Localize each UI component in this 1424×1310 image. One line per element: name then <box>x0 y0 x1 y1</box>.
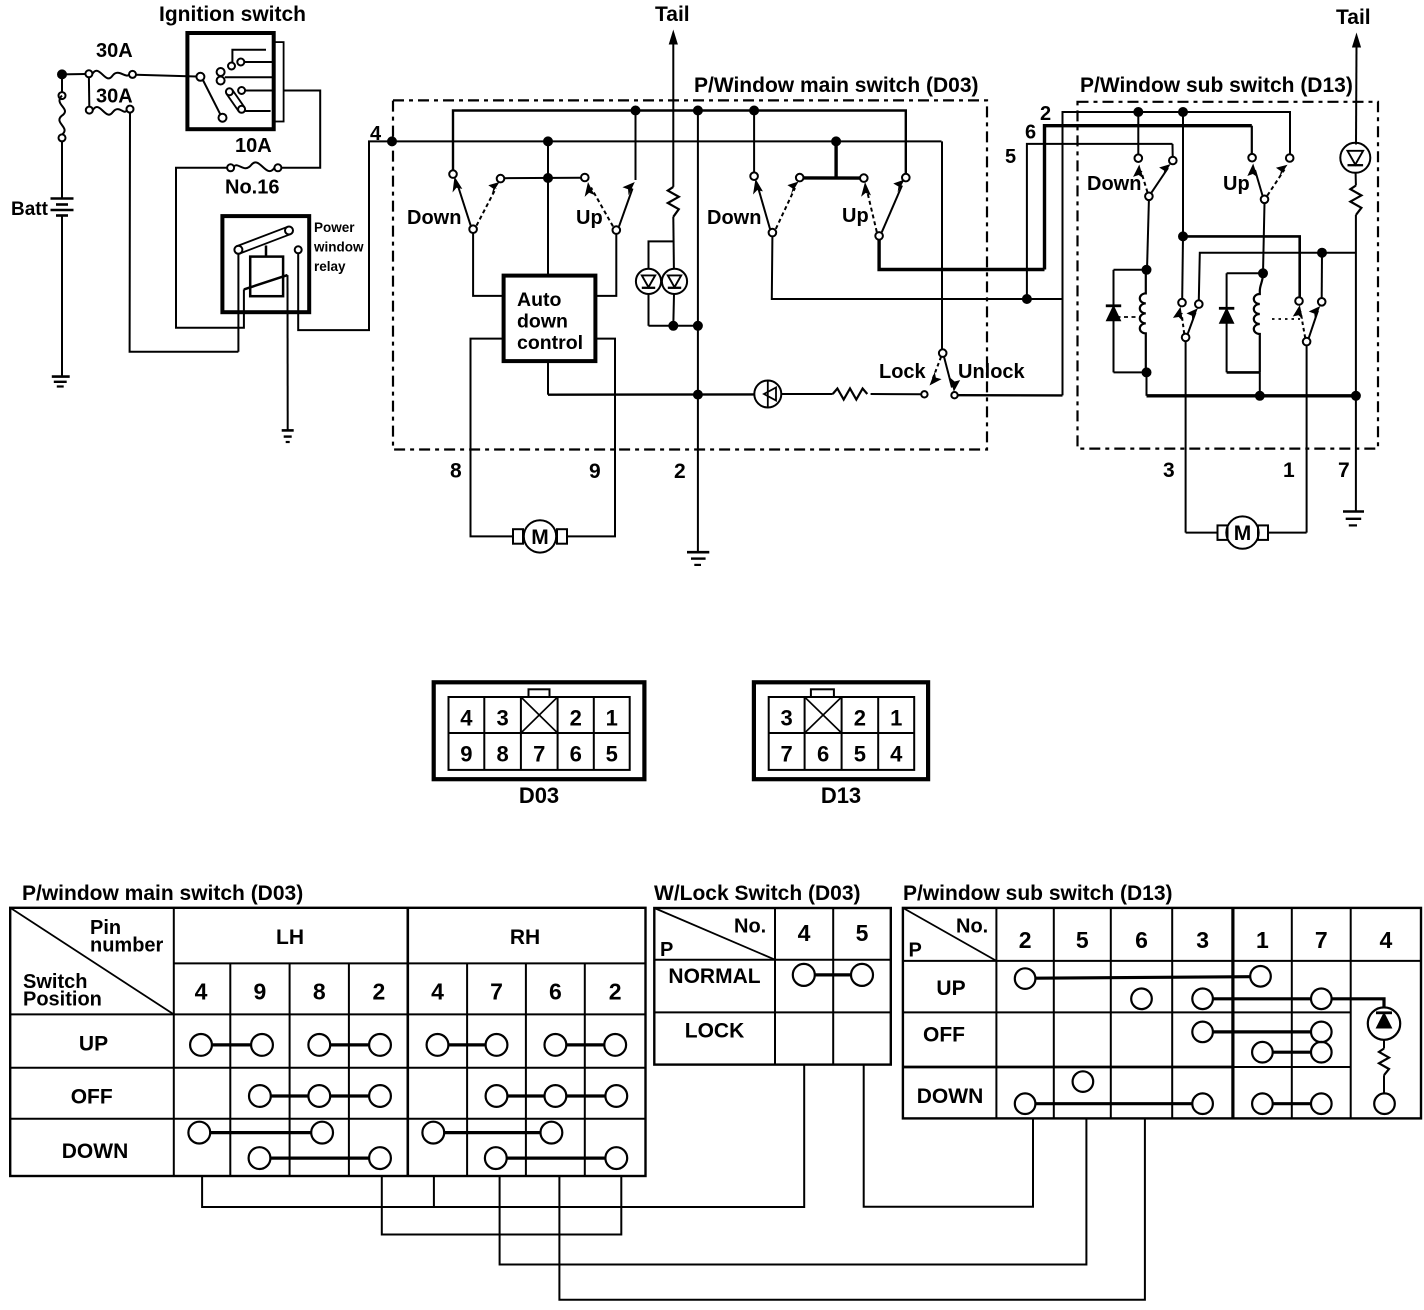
connector D13 <box>754 682 928 779</box>
svg-text:3: 3 <box>1196 927 1209 953</box>
wire pin4 bus <box>393 140 942 142</box>
svg-text:1: 1 <box>606 706 618 731</box>
svg-text:1: 1 <box>1283 459 1295 482</box>
wire net2 <box>1063 112 1291 395</box>
svg-text:4: 4 <box>1380 927 1393 953</box>
wire net2 to sub down left contact <box>1137 112 1139 154</box>
svg-text:9: 9 <box>460 742 472 767</box>
svg-text:2: 2 <box>1019 927 1032 953</box>
lamp illumination <box>754 381 781 408</box>
wire led pair top bracket <box>649 241 674 269</box>
node LH bracket <box>544 174 552 182</box>
wire unlock to net2 <box>958 394 1063 397</box>
arrow tail main <box>669 30 678 45</box>
switch sub down <box>1133 154 1177 200</box>
label power window relay <box>313 220 364 274</box>
ground relay <box>282 430 294 442</box>
svg-text:2: 2 <box>570 706 582 731</box>
svg-text:Lock: Lock <box>879 361 927 383</box>
diode D relay1 <box>1106 270 1121 373</box>
svg-text:1: 1 <box>890 706 902 731</box>
ignition switch contacts <box>196 50 273 122</box>
svg-text:number: number <box>90 935 164 957</box>
node top bus c <box>750 107 758 115</box>
svg-text:6: 6 <box>817 742 829 767</box>
contact sub col4 down <box>1374 1093 1395 1114</box>
wire fuse2 to relay contact <box>130 113 239 352</box>
wire resistor to led pair <box>672 217 675 269</box>
contacts NORMAL 4-5 <box>793 964 873 986</box>
svg-text:6: 6 <box>1025 122 1036 144</box>
connector D03 <box>434 682 645 779</box>
svg-text:Down: Down <box>1087 173 1141 195</box>
wire RH bracket <box>804 141 861 178</box>
svg-text:D03: D03 <box>519 783 559 808</box>
P/Window sub switch D13 dashed box <box>1078 102 1379 449</box>
switch RH up <box>860 174 910 240</box>
svg-text:5: 5 <box>856 920 869 946</box>
svg-text:7: 7 <box>1338 459 1350 482</box>
motor RH M <box>1186 516 1307 548</box>
relay1 bottom bracket <box>1114 371 1147 373</box>
table wlock header <box>660 916 869 962</box>
svg-text:OFF: OFF <box>923 1024 965 1047</box>
wire relay1 right contact to tail line <box>1199 253 1356 301</box>
switch sub up <box>1247 154 1293 203</box>
contacts sub UP 3-7-led <box>1192 989 1384 1010</box>
wire table link pin4 D03 <box>202 1065 804 1207</box>
wire led pair bottom bracket <box>649 294 698 326</box>
contacts sub OFF 3-7 <box>1192 1022 1331 1043</box>
svg-text:5: 5 <box>854 742 866 767</box>
svg-text:10A: 10A <box>235 135 272 157</box>
svg-text:LOCK: LOCK <box>685 1020 745 1043</box>
svg-text:window: window <box>313 240 364 255</box>
contacts DOWN LH 9-2 <box>249 1147 391 1169</box>
node net2 b <box>1179 108 1187 116</box>
wire top bus <box>453 111 906 174</box>
switch RH down <box>750 111 803 237</box>
wire table link pin2 D03 <box>382 1176 622 1235</box>
svg-text:8: 8 <box>496 742 508 767</box>
svg-text:2: 2 <box>854 706 866 731</box>
wire pin 1 <box>1306 345 1308 532</box>
svg-text:OFF: OFF <box>71 1086 113 1109</box>
svg-text:5: 5 <box>1005 146 1016 168</box>
battery Batt <box>11 199 74 221</box>
svg-text:LH: LH <box>276 926 304 949</box>
wire pin 8 <box>471 339 514 537</box>
svg-text:P/window main switch (D03): P/window main switch (D03) <box>22 882 303 905</box>
relay2 top bracket <box>1227 272 1263 274</box>
svg-text:down: down <box>517 311 568 333</box>
wire net6 to sub up left contact <box>1251 126 1253 154</box>
node led bracket b <box>694 322 702 330</box>
wire relay blade to ground <box>287 275 289 430</box>
wire LH down common to auto box <box>473 233 504 296</box>
fuse 10A No.16 <box>225 135 281 199</box>
wire pin 2 vertical <box>697 111 699 553</box>
svg-text:6: 6 <box>570 742 582 767</box>
wire link to relay2 right contact <box>1321 253 1323 298</box>
node net5 junction <box>1023 295 1031 303</box>
svg-text:control: control <box>517 332 583 354</box>
wire led to resistor sub <box>1355 173 1357 186</box>
ground tail sub <box>1343 512 1364 526</box>
linkage relay2 <box>1272 318 1300 320</box>
wire auto down to lamp line <box>547 361 549 395</box>
table sub switch grid <box>903 908 1421 1119</box>
resistor tail sub <box>1350 186 1361 215</box>
node pin4 bus right <box>832 137 840 145</box>
svg-text:P/Window main switch (D03): P/Window main switch (D03) <box>694 74 979 97</box>
svg-text:8: 8 <box>450 460 462 483</box>
svg-text:No.16: No.16 <box>225 177 279 199</box>
contacts sub DOWN 1-7 <box>1252 1093 1332 1114</box>
node battery junction <box>58 70 66 78</box>
svg-text:relay: relay <box>314 259 346 274</box>
svg-text:Ignition switch: Ignition switch <box>159 3 306 26</box>
wire auto-down top feed <box>547 141 549 275</box>
node led bracket a <box>669 322 677 330</box>
wire resistor to down contact <box>1383 1075 1385 1093</box>
wire resistor to lock contact <box>871 393 922 395</box>
contacts UP RH 6-2 <box>545 1034 627 1056</box>
svg-text:5: 5 <box>1076 927 1089 953</box>
svg-text:7: 7 <box>533 742 545 767</box>
wire relay2 to bottom bus <box>1259 372 1261 395</box>
svg-text:Batt: Batt <box>11 199 49 220</box>
contacts DOWN RH 7-2 <box>485 1147 627 1169</box>
svg-text:P/window sub switch (D13): P/window sub switch (D13) <box>903 882 1173 905</box>
wire sub down common to relay1 <box>1147 200 1149 270</box>
wire fuse1 to ignition switch <box>136 75 196 77</box>
wire pin 9 <box>567 339 615 537</box>
wire led to resistor table <box>1383 1040 1385 1049</box>
svg-text:1: 1 <box>1256 927 1269 953</box>
fuse 30A no2 <box>86 86 134 115</box>
svg-text:9: 9 <box>254 979 267 1005</box>
svg-text:2: 2 <box>1040 103 1051 125</box>
auto down control box <box>504 276 596 362</box>
table main pin number row <box>195 979 622 1005</box>
svg-text:3: 3 <box>496 706 508 731</box>
wire net5 into sub box <box>1027 144 1173 299</box>
svg-text:No.: No. <box>734 916 766 938</box>
relay2 bottom bracket <box>1227 371 1260 374</box>
fuse 30A no1 <box>85 40 136 78</box>
wire table link RH6 to sub6 <box>559 1118 1145 1299</box>
node tail link <box>1318 249 1326 257</box>
svg-text:2: 2 <box>373 979 386 1005</box>
svg-text:Down: Down <box>407 207 461 229</box>
contacts OFF RH 7-6-2 <box>486 1085 628 1107</box>
wire fuse 10A to relay coil <box>176 168 244 328</box>
svg-text:Unlock: Unlock <box>958 361 1026 383</box>
wire junction to fuse 30A no1 <box>62 73 85 75</box>
relay armature <box>234 227 293 257</box>
wire tail main down <box>672 42 674 187</box>
contacts UP LH 4-9 <box>190 1034 273 1056</box>
wire relay1 to bottom bus <box>1146 372 1148 395</box>
wire tail sub to ground <box>1355 215 1357 512</box>
arrow tail sub <box>1352 33 1361 48</box>
led main left <box>636 269 661 294</box>
svg-text:UP: UP <box>79 1033 108 1056</box>
node relay2 top <box>1259 269 1267 277</box>
svg-text:Tail: Tail <box>655 3 690 26</box>
relay1 top bracket <box>1114 269 1148 271</box>
svg-text:30A: 30A <box>96 86 133 108</box>
svg-text:4: 4 <box>431 979 444 1005</box>
contacts OFF LH 9-8-2 <box>249 1085 391 1107</box>
wire lamp line <box>548 393 754 396</box>
svg-text:W/Lock Switch (D03): W/Lock Switch (D03) <box>654 882 861 905</box>
switch relay1 contact <box>1173 299 1203 341</box>
relay box power window relay <box>222 216 309 312</box>
contacts sub UP 2-1 <box>1015 966 1271 989</box>
svg-text:Up: Up <box>842 205 869 227</box>
resistor lock line <box>833 389 868 400</box>
table main switch grid <box>10 908 645 1176</box>
node bus relay2 <box>1256 392 1264 400</box>
svg-text:4: 4 <box>195 979 208 1005</box>
node top bus a <box>632 107 640 115</box>
contacts sub OFF 1-7 <box>1252 1042 1332 1063</box>
wire fuse1 to fuse2 <box>88 77 90 106</box>
switch LH up <box>581 111 636 234</box>
P/Window main switch D03 dashed box <box>393 100 987 449</box>
contacts UP LH 8-2 <box>308 1034 391 1056</box>
node pin4 bus left <box>544 137 552 145</box>
svg-text:4: 4 <box>798 920 811 946</box>
svg-text:9: 9 <box>589 460 601 483</box>
svg-text:Position: Position <box>23 989 102 1011</box>
table sub header <box>909 916 1393 962</box>
ground battery <box>52 377 70 387</box>
svg-text:UP: UP <box>936 977 965 1000</box>
led sub table <box>1368 1007 1400 1039</box>
wire RH up common net6 <box>879 240 1044 270</box>
ignition switch box <box>187 33 283 129</box>
svg-text:DOWN: DOWN <box>62 1140 129 1163</box>
svg-text:8: 8 <box>313 979 326 1005</box>
node pin 4 entry <box>388 137 396 145</box>
contacts DOWN LH 4-8 <box>188 1122 333 1144</box>
svg-text:Power: Power <box>314 220 355 235</box>
svg-text:M: M <box>531 526 549 549</box>
wire net5 to sub down right contact <box>1172 144 1174 156</box>
wire sub bottom bus <box>1147 394 1356 397</box>
coil L relay2 <box>1254 273 1263 372</box>
linkage relay1 <box>1117 316 1141 318</box>
led sub tail <box>1340 143 1370 173</box>
svg-text:4: 4 <box>460 706 473 731</box>
wire net2 to relay contacts <box>1182 112 1300 299</box>
table main header labels <box>23 917 540 1011</box>
wire net6 into sub box <box>1045 126 1252 270</box>
wire pin 3 <box>1185 341 1187 532</box>
switch window lock <box>921 349 960 398</box>
node lamp line pin2 <box>694 391 702 399</box>
relay switch blade <box>244 275 288 289</box>
resistor sub table <box>1379 1049 1389 1076</box>
wire table link RH7 to sub5 <box>500 1118 1087 1264</box>
svg-text:2: 2 <box>674 460 686 483</box>
svg-text:Tail: Tail <box>1336 6 1371 29</box>
wire lock pivot feed <box>941 141 943 349</box>
fusible link battery <box>59 74 66 198</box>
svg-text:7: 7 <box>490 979 503 1005</box>
wire relay output to pin 4 <box>298 141 392 330</box>
svg-text:Down: Down <box>707 207 761 229</box>
connector D13 pin numbers <box>780 706 903 767</box>
relay coil box <box>250 257 283 297</box>
wire lamp to resistor <box>781 393 832 395</box>
node net2 T <box>1179 232 1187 240</box>
contact sub UP 6 <box>1131 989 1152 1010</box>
relay output terminal <box>295 246 302 253</box>
resistor tail main <box>668 187 679 217</box>
switch relay2 contact <box>1293 297 1326 345</box>
svg-text:5: 5 <box>606 742 618 767</box>
svg-text:6: 6 <box>1135 927 1148 953</box>
svg-text:Auto: Auto <box>517 289 561 311</box>
svg-text:Up: Up <box>1223 173 1250 195</box>
svg-text:7: 7 <box>1315 927 1328 953</box>
svg-text:6: 6 <box>549 979 562 1005</box>
wire RH down common net5 <box>772 236 1062 299</box>
svg-text:DOWN: DOWN <box>917 1085 984 1108</box>
svg-text:2: 2 <box>609 979 622 1005</box>
node relay1 bottom <box>1143 368 1151 376</box>
wire ignition to fuse 10A <box>281 91 320 168</box>
svg-text:30A: 30A <box>96 40 133 62</box>
contacts sub DOWN 2-3 <box>1015 1093 1213 1114</box>
contact sub DOWN 5 <box>1073 1071 1094 1092</box>
svg-text:No.: No. <box>956 916 988 938</box>
contacts DOWN RH 4-6 <box>422 1122 562 1144</box>
svg-text:7: 7 <box>780 742 792 767</box>
svg-text:D13: D13 <box>821 783 861 808</box>
svg-text:P/Window sub switch (D13): P/Window sub switch (D13) <box>1080 74 1353 97</box>
contacts UP RH 4-7 <box>427 1034 508 1056</box>
wire battery to ground <box>61 216 63 377</box>
motor LH M <box>513 520 567 552</box>
svg-text:3: 3 <box>1163 459 1175 482</box>
svg-text:NORMAL: NORMAL <box>668 965 760 988</box>
svg-text:RH: RH <box>510 926 540 949</box>
wire relay armature to battery feed <box>237 254 239 352</box>
svg-text:Up: Up <box>576 207 603 229</box>
svg-text:4: 4 <box>370 123 382 145</box>
node top bus b <box>694 107 702 115</box>
svg-text:P: P <box>909 940 922 962</box>
node relay1 top <box>1143 266 1151 274</box>
node net2 a <box>1134 108 1142 116</box>
wire LH up common to auto box <box>595 234 616 296</box>
node bus tail <box>1352 392 1360 400</box>
wire LH bracket <box>504 177 581 179</box>
ground pin 2 <box>687 552 709 565</box>
svg-text:M: M <box>1234 522 1252 545</box>
svg-text:P: P <box>660 939 673 961</box>
led main right <box>662 269 687 294</box>
connector D03 pin numbers <box>460 706 618 767</box>
switch LH down <box>449 170 504 233</box>
wire table link wlock5 to sub2 <box>864 1065 1033 1207</box>
diode D relay2 <box>1219 273 1234 372</box>
wire sub up common to relay2 <box>1263 203 1265 273</box>
table wlock grid <box>654 908 891 1065</box>
svg-text:3: 3 <box>780 706 792 731</box>
svg-text:4: 4 <box>890 742 903 767</box>
coil L relay1 <box>1140 270 1146 373</box>
wire tail sub down <box>1355 45 1358 145</box>
